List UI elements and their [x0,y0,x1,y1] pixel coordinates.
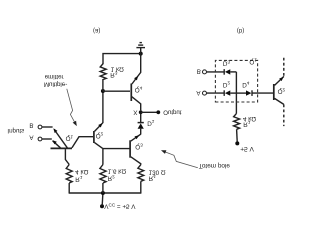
node Q2 emitter junction dot [101,89,105,93]
transistor Q4 base bar [130,84,132,102]
transistor Q2 collector [95,143,103,149]
transistor Q4 emitter arrowhead [134,76,138,81]
resistor R3 1k zigzag [100,64,106,80]
transistor Q3 emitter arrowhead [135,135,140,139]
resistor R1 4k zigzag [66,165,72,184]
resistor R1b 4k zigzag [234,113,240,129]
input terminal A2 circle [203,91,207,95]
ground symbol [140,48,142,54]
svg-text:4 kΩ: 4 kΩ [75,168,88,175]
diode D1 cathode bar [138,122,144,124]
wire node to Q4 base [103,90,130,92]
svg-text:+5 V: +5 V [240,145,254,152]
transistor Q1 emitter B arrowhead [53,128,57,133]
transistor Q4 collector [132,97,141,111]
wire A row mid [230,92,246,94]
svg-text:1 kΩ: 1 kΩ [111,66,124,73]
transistor Q2b emitter [275,76,284,85]
wire R3 to ground rail [103,54,141,64]
diode D3 cathode bar [223,69,225,75]
output terminal dot [156,110,160,114]
svg-text:Multiple-: Multiple- [44,80,67,87]
transistor Q2 emitter [95,123,103,132]
wire node to R3 [102,79,104,91]
wire rail to R4 [140,181,142,193]
transistor Q3 collector [131,157,141,165]
callout totem pole arrow [163,151,198,168]
transistor Q1 emitter A arrowhead [52,140,57,144]
svg-text:B: B [197,68,201,75]
svg-text:Inputs: Inputs [7,127,24,134]
svg-text:4 kΩ: 4 kΩ [243,115,256,122]
diode D3 triangle [225,69,230,74]
power terminal +5V dot [235,141,239,145]
wire A row right [252,92,273,94]
diode D1 lead top [140,129,142,135]
svg-text:Output: Output [163,108,182,115]
input terminal A circle [38,137,42,141]
node ground junction dot [139,52,143,56]
wire input A [42,138,52,140]
transistor Q2 base bar [93,131,95,143]
diode D1 lead bottom [140,114,142,123]
svg-text:(a): (a) [93,27,100,33]
wire R1b to +5V [236,129,239,141]
wire A row left [207,92,224,94]
entire schematic drawn in readable coords, flipped vertically to match reference [7,27,285,210]
wire R1 to Q1 base [65,149,69,164]
wire rail to R1 [68,183,70,194]
transistor Q2b base bar [273,84,275,100]
svg-text:emitter: emitter [45,73,64,80]
wire B riser to A row and R1 [235,72,237,113]
dashed emitter lead [283,57,285,76]
node X dot [139,110,143,114]
svg-text:Totem pole: Totem pole [199,162,231,169]
wire Q2 collector to R2 [102,149,104,165]
diode D2 triangle [225,90,230,95]
wire B row left [207,71,224,73]
svg-text:1.6 kΩ: 1.6 kΩ [108,168,127,175]
node rail junction dot [101,191,105,195]
input terminal B2 circle [203,70,207,74]
diode D4 triangle [246,90,251,95]
diode D1 triangle [138,123,144,128]
wire input B [42,126,53,128]
transistor Q2b emitter arrowhead [279,77,283,81]
transistor Q1 base bar [51,147,73,149]
transistor Q1 collector [72,137,93,148]
transistor Q3 emitter [131,134,141,141]
transistor Q2 emitter arrowhead [98,123,102,127]
svg-text:B: B [29,122,33,129]
resistor R2 1.6k zigzag [100,165,106,184]
wire B row right [230,71,236,73]
dashed collector lead [283,104,285,126]
svg-text:(b): (b) [237,27,244,33]
svg-text:130 Ω: 130 Ω [149,168,166,175]
transistor Q2b collector [275,98,284,104]
transistor Q1 emitter A [53,141,61,148]
power terminal VCC dot [100,204,104,208]
diode D2 cathode bar [223,90,225,96]
transistor Q1 emitter B [54,129,67,147]
resistor R4 130 zigzag [138,165,144,182]
dashed box Q1 equivalent [215,60,257,102]
wire rail to R2 [102,183,104,193]
input terminal B circle [38,125,42,129]
transistor Q3 base bar [129,140,131,157]
wire VCC rail [69,192,141,194]
wire Q2 emitter down [102,91,104,123]
callout multiple-emitter arrow [67,89,76,124]
transistor Q4 emitter [132,54,141,84]
wire VCC stem [101,193,104,206]
wire Q2 collector to Q3 base [103,148,130,150]
diode D4 cathode bar [251,90,253,96]
wire X to output [141,111,159,113]
